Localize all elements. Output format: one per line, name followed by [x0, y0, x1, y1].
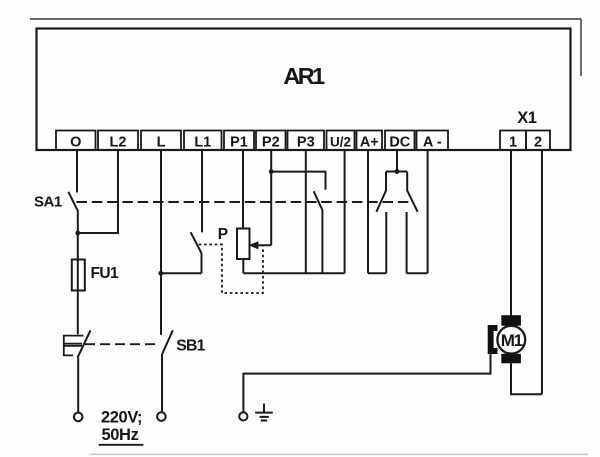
DC selector left arm — [376, 172, 386, 212]
svg-text:P2: P2 — [262, 135, 280, 151]
wire from A+ — [367, 150, 369, 273]
terminal A- — [417, 131, 449, 151]
svg-text:M1: M1 — [501, 331, 523, 350]
terminal U/2 — [327, 131, 355, 151]
junction node on L wire — [158, 271, 163, 276]
svg-text:L2: L2 — [110, 135, 127, 151]
earth ground symbol — [255, 404, 273, 421]
terminal L2 — [98, 131, 138, 151]
wiper arrowhead — [249, 241, 259, 249]
wire from A- — [427, 150, 429, 273]
svg-text:DC: DC — [389, 135, 410, 151]
pushbutton SB1 left pole bracket — [64, 336, 84, 356]
rail pot P3 U/2 — [243, 272, 344, 274]
svg-text:P: P — [218, 226, 228, 243]
svg-text:L1: L1 — [194, 135, 211, 151]
U-turn A+ to selector — [368, 272, 386, 274]
pot switch lower contact — [201, 253, 203, 273]
terminal O — [56, 131, 96, 151]
motor stator bracket — [488, 325, 498, 354]
wire from O — [76, 150, 78, 193]
mains terminal circle left — [74, 413, 83, 422]
SA1 pole2 lower contact — [321, 210, 323, 273]
U-turn selector to A- — [407, 272, 428, 274]
pushbutton SB1 left blade — [78, 330, 91, 357]
potentiometer P body — [237, 229, 250, 260]
svg-text:U/2: U/2 — [330, 135, 351, 150]
motor brush top — [501, 315, 521, 326]
svg-text:X1: X1 — [517, 109, 536, 127]
DC selector right contact — [406, 212, 408, 273]
fuse FU1 — [72, 260, 85, 291]
wire from P3 — [305, 150, 307, 273]
wiper line — [251, 244, 271, 246]
wire to mains terminal right — [161, 354, 163, 412]
wire motor bottom loop — [511, 363, 542, 394]
svg-text:P1: P1 — [230, 135, 248, 151]
junction node DC — [395, 169, 400, 174]
controller box AR1 — [37, 29, 571, 151]
wire to mains terminal left — [77, 358, 79, 413]
rail L to pot switch — [161, 272, 202, 274]
pushbutton SB1 right blade — [162, 330, 173, 354]
wire X1-2 down — [541, 150, 543, 394]
DC selector right arm — [407, 172, 417, 212]
mechanical link SA1 (dashed) — [77, 201, 410, 203]
svg-text:2: 2 — [534, 135, 542, 151]
svg-text:A+: A+ — [360, 135, 379, 151]
motor M1 circle — [497, 326, 525, 354]
underline — [99, 444, 144, 446]
svg-text:A -: A - — [423, 135, 442, 151]
wire from P1 — [242, 150, 244, 229]
mechanical link SB1 (dashed) — [85, 343, 159, 345]
wire from P2 — [270, 150, 272, 245]
svg-text:SB1: SB1 — [176, 338, 205, 355]
terminal L — [141, 131, 181, 151]
motor brush bottom — [501, 354, 521, 364]
terminal X1-2 — [526, 131, 550, 151]
svg-text:220V;: 220V; — [101, 408, 142, 426]
scan frame (decorative) — [30, 19, 581, 76]
svg-text:O: O — [70, 135, 81, 151]
terminal DC — [385, 131, 415, 151]
pot switch blade — [191, 232, 202, 253]
branch P2 to SA1 pole2 — [271, 172, 325, 190]
svg-text:SA1: SA1 — [34, 194, 62, 211]
wire from L1 — [201, 150, 203, 232]
svg-text:FU1: FU1 — [91, 265, 119, 282]
DC selector bar — [386, 171, 407, 173]
terminal P3 — [288, 131, 325, 151]
junction node — [75, 231, 80, 236]
junction node on P2 wire — [269, 169, 274, 174]
svg-text:1: 1 — [509, 135, 517, 151]
wire from L — [160, 150, 162, 335]
wire from U/2 — [344, 150, 346, 273]
wire from DC — [396, 150, 398, 172]
terminal P2 — [256, 131, 286, 151]
switch SA1 blade — [68, 192, 77, 210]
wire SA1 to FU1 to SB1 — [77, 210, 79, 334]
terminal P1 — [224, 131, 254, 151]
wire motor frame to ground — [243, 354, 490, 412]
terminal X1-1 — [500, 131, 526, 151]
svg-text:P3: P3 — [297, 135, 315, 151]
mechanical link P (dotted) — [199, 245, 263, 294]
ground terminal circle — [239, 412, 247, 420]
terminal L1 — [184, 131, 222, 151]
mains terminal circle right — [157, 412, 166, 421]
svg-text:L: L — [157, 135, 166, 151]
terminal A+ — [357, 131, 383, 151]
wire pot bottom — [242, 259, 244, 273]
wire X1-1 to motor — [510, 150, 512, 316]
DC selector left contact — [385, 212, 387, 273]
wire from L2 — [80, 150, 118, 233]
SA1 pole2 blade — [314, 191, 323, 210]
svg-text:50Hz: 50Hz — [102, 426, 139, 444]
svg-text:AR1: AR1 — [283, 63, 325, 89]
